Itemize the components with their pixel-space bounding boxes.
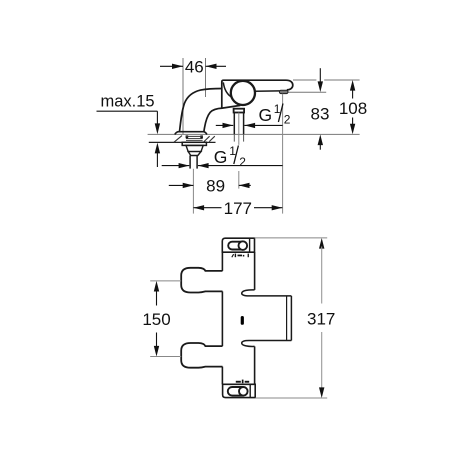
bottom union pill — [228, 387, 247, 396]
body right edge upper — [254, 252, 256, 290]
svg-text:G: G — [214, 147, 228, 167]
shank pipe — [234, 113, 243, 135]
top union pill — [228, 242, 246, 250]
extension line 46 right — [205, 58, 207, 97]
deck top line — [148, 133, 360, 135]
shank collar — [234, 109, 245, 113]
spout aerator nub — [279, 90, 288, 93]
locknut — [186, 146, 203, 152]
right panel top ear — [242, 290, 292, 296]
bottom union housing — [223, 384, 256, 397]
dimension G 1/2 upper — [216, 102, 291, 128]
tail pipe — [190, 156, 197, 169]
dimension 317 — [307, 238, 335, 398]
150 upper extension line — [150, 280, 181, 282]
through-deck thread section — [186, 135, 203, 140]
svg-text:2: 2 — [284, 113, 291, 127]
lever cap circle — [231, 81, 255, 105]
lever-circle fillet — [223, 82, 231, 96]
317 top extension line — [255, 237, 328, 239]
dimension 83 — [311, 68, 330, 150]
dimension 150 — [142, 281, 170, 357]
svg-text:max.15: max.15 — [101, 93, 155, 111]
svg-text:108: 108 — [339, 99, 367, 118]
svg-text:317: 317 — [307, 309, 335, 328]
89 right extension line — [238, 171, 240, 189]
lower handle — [181, 343, 222, 368]
deck hatch left — [174, 136, 182, 143]
svg-text:G: G — [259, 105, 273, 125]
shank through-deck — [234, 134, 243, 141]
150 lower extension line — [150, 356, 181, 358]
body left edge lower — [221, 367, 223, 385]
svg-text:2: 2 — [239, 155, 246, 169]
spout underside line — [255, 90, 280, 92]
outlet centre extension line — [282, 94, 284, 214]
dimension 89 — [169, 177, 251, 196]
bottom scale ticks — [236, 380, 249, 384]
top scale ticks — [231, 254, 249, 258]
svg-text:89: 89 — [206, 177, 225, 196]
faucet body left profile — [180, 89, 223, 132]
svg-text:83: 83 — [311, 104, 330, 123]
dimension 108 — [339, 80, 367, 134]
locknut lower — [188, 152, 201, 156]
shank centre line — [238, 113, 240, 145]
tail pipe centre extension line — [192, 169, 194, 214]
spout outlet bottom extension line — [288, 91, 326, 93]
dimension 46 — [160, 57, 226, 76]
317 bottom extension line — [255, 397, 327, 399]
temperature button dot — [241, 316, 244, 325]
top union circle — [239, 241, 248, 250]
deck bottom line — [149, 141, 216, 143]
top housing divider — [249, 238, 251, 252]
svg-text:46: 46 — [185, 57, 204, 76]
upper handle — [181, 268, 222, 293]
faucet base plate — [175, 132, 207, 135]
spout top extension line — [293, 79, 360, 81]
deck hatch right — [204, 136, 215, 141]
dimension 177 — [193, 199, 282, 218]
right panel inner line — [286, 297, 288, 341]
lever spout body — [222, 80, 293, 108]
svg-text:1: 1 — [274, 102, 281, 116]
extension line 46 left — [182, 58, 184, 134]
faucet body right profile — [204, 105, 240, 131]
bottom housing divider — [249, 384, 251, 397]
dimension G 1/2 lower — [162, 144, 283, 169]
body right edge lower — [254, 346, 256, 384]
washer under deck — [182, 142, 206, 145]
body left edge upper — [221, 252, 223, 271]
body left edge middle — [221, 291, 223, 346]
svg-text:1: 1 — [229, 144, 236, 158]
dimension max.15 — [97, 93, 161, 168]
svg-text:150: 150 — [142, 310, 170, 329]
right panel — [290, 296, 292, 341]
top union housing — [222, 238, 254, 252]
svg-text:177: 177 — [224, 199, 252, 218]
bottom union circle — [239, 387, 248, 396]
right panel bottom ear — [242, 341, 292, 347]
